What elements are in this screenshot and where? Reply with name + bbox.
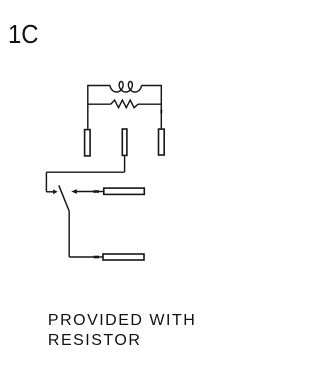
wire top-left horizontal (coil row left lead): [88, 85, 110, 87]
actuator arrowhead pointing left: [71, 189, 77, 194]
wire contact arrow shaft: [46, 191, 53, 193]
label 1C: [8, 22, 39, 46]
wire resistor row left lead: [88, 103, 111, 105]
wire left vertical (top node to left terminal): [87, 85, 89, 129]
wire vertical down to contact arrow: [45, 172, 47, 192]
wire thin gap stub terminal 4: [99, 256, 102, 258]
terminal 2 (middle): [122, 129, 127, 155]
terminal 3 (right): [159, 129, 165, 155]
wire blade vertical down: [68, 211, 70, 257]
actuator thin gap stub: [99, 191, 103, 193]
wire bottom horizontal to terminal 4: [69, 256, 93, 258]
caption PROVIDED WITH RESISTOR: [48, 311, 196, 351]
actuator arrow shaft: [76, 191, 93, 193]
actuator plunger rectangle: [104, 188, 145, 194]
switch blade (movable contact): [59, 185, 69, 211]
inductor L1 coil: [110, 82, 141, 93]
terminal 4 (bottom, horizontal): [103, 254, 144, 260]
wire thick stub before terminal 4: [93, 256, 99, 259]
resistor R1 zigzag: [111, 100, 138, 108]
wire horizontal to switch: [46, 171, 124, 173]
wire resistor row right lead: [138, 103, 161, 105]
wire junction thick mark on right vertical: [160, 110, 162, 114]
wire top-right horizontal (coil row right lead): [141, 85, 161, 87]
actuator thick stub: [93, 190, 99, 193]
wire middle terminal down: [124, 156, 126, 172]
contact arrowhead pointing right: [53, 189, 58, 194]
wire right vertical (top node to right terminal): [160, 85, 162, 128]
terminal 1 (left): [85, 130, 91, 156]
